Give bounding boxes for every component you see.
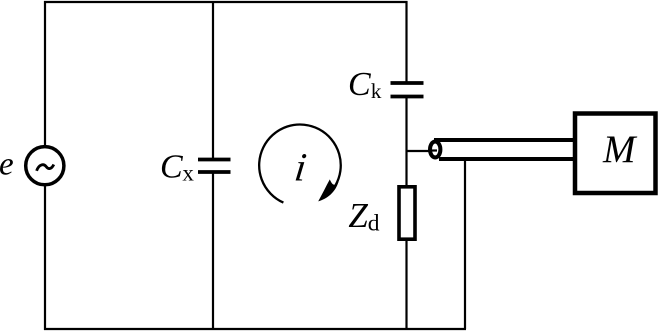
coax cable top line <box>434 138 575 142</box>
svg-text:e: e <box>0 146 14 182</box>
svg-text:d: d <box>368 210 380 236</box>
wire shield down lead <box>464 159 466 330</box>
impedance Zd box <box>399 187 415 239</box>
capacitor Cx top plate <box>198 158 231 162</box>
wire left vertical lower <box>44 186 46 330</box>
wire center conductor stub to coax <box>407 150 438 152</box>
svg-text:i: i <box>292 145 309 190</box>
coax connector ellipse <box>430 142 440 158</box>
svg-text:x: x <box>182 160 194 185</box>
capacitor Ck top plate <box>391 81 424 85</box>
wire right vertical lower (below Zd) <box>405 241 407 329</box>
wire top rail <box>44 1 408 3</box>
svg-text:C: C <box>160 148 183 185</box>
source e circle <box>26 147 64 185</box>
instrument box M <box>575 114 656 194</box>
source tilde <box>37 165 54 171</box>
loop current arc <box>259 125 341 203</box>
svg-text:k: k <box>371 79 382 103</box>
wire right vertical upper (Ck branch) <box>405 1 407 83</box>
wire right vertical middle (between Ck and Zd) <box>405 97 407 186</box>
coax center conductor tick <box>431 149 437 151</box>
wire left vertical upper <box>44 1 46 146</box>
svg-text:M: M <box>602 128 638 171</box>
loop current arrowhead <box>318 179 338 201</box>
coax cable bottom line <box>439 157 575 161</box>
svg-text:Z: Z <box>348 196 368 235</box>
wire middle vertical upper (Cx branch) <box>212 2 214 159</box>
capacitor Ck bottom plate <box>391 95 424 99</box>
wire middle vertical lower (Cx branch) <box>212 172 214 329</box>
svg-text:C: C <box>348 66 371 103</box>
capacitor Cx bottom plate <box>198 170 231 174</box>
wire bottom rail <box>44 328 466 330</box>
